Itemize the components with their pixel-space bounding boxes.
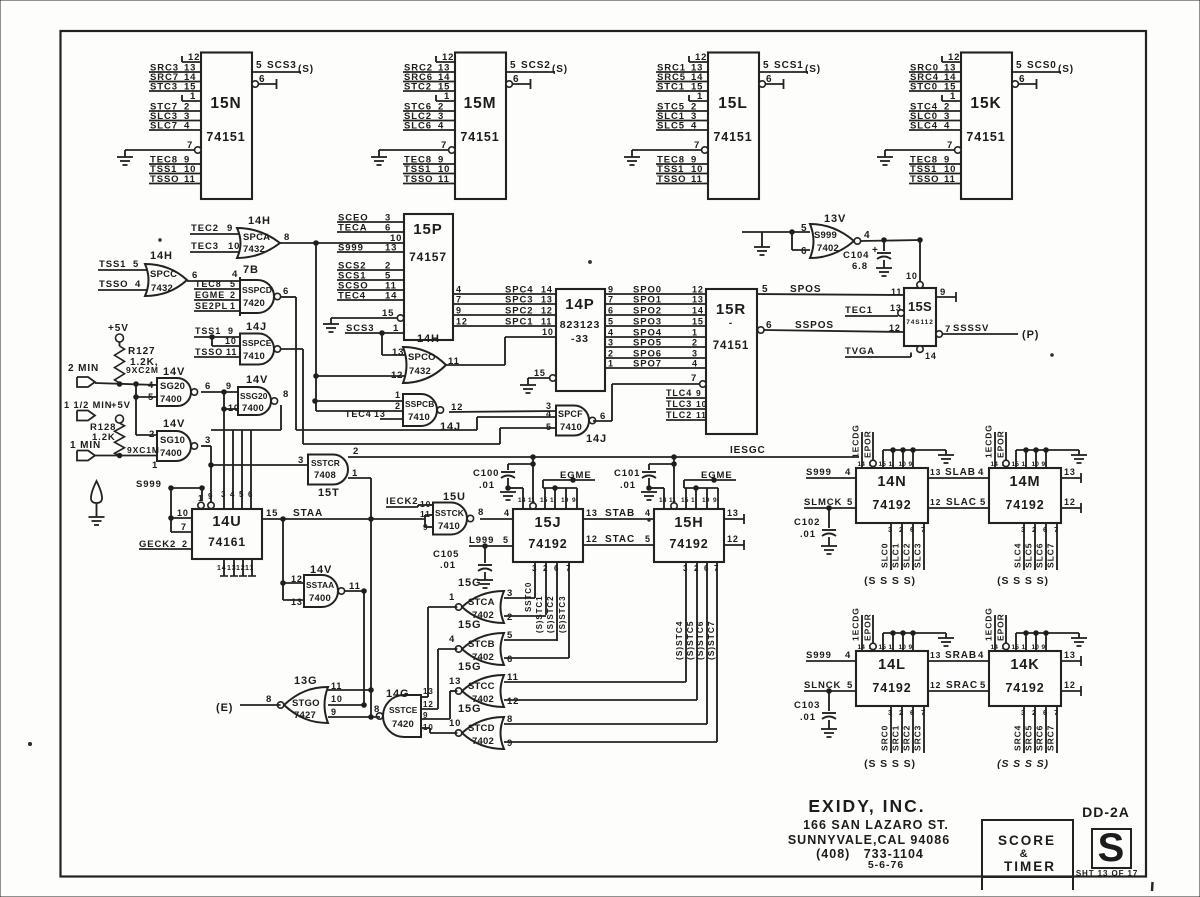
svg-text:74192: 74192 <box>528 537 567 551</box>
svg-text:14: 14 <box>659 497 667 504</box>
svg-text:4: 4 <box>135 279 141 290</box>
svg-text:14: 14 <box>518 497 526 504</box>
svg-text:SRC3: SRC3 <box>913 725 923 751</box>
svg-text:TSSO: TSSO <box>910 174 939 185</box>
svg-text:9: 9 <box>696 388 702 398</box>
svg-text:11: 11 <box>891 287 902 297</box>
svg-text:SRC0: SRC0 <box>880 725 890 751</box>
svg-text:12: 12 <box>692 285 704 295</box>
svg-text:13V: 13V <box>824 213 846 225</box>
svg-text:5: 5 <box>133 259 139 270</box>
svg-text:TSSO: TSSO <box>99 279 128 290</box>
svg-text:7400: 7400 <box>160 394 182 405</box>
svg-text:12: 12 <box>507 696 519 707</box>
svg-text:2: 2 <box>899 525 904 534</box>
svg-text:4: 4 <box>845 467 851 478</box>
svg-text:SSTC0: SSTC0 <box>524 582 533 612</box>
svg-text:12: 12 <box>586 534 598 544</box>
svg-text:1: 1 <box>190 91 196 102</box>
svg-text:STC2: STC2 <box>404 82 432 93</box>
svg-text:6: 6 <box>910 708 915 717</box>
svg-text:(S S S S): (S S S S) <box>864 758 916 770</box>
svg-text:74157: 74157 <box>409 250 447 264</box>
svg-text:C103: C103 <box>794 700 820 711</box>
svg-text:12: 12 <box>889 323 901 333</box>
svg-text:2 MIN: 2 MIN <box>68 363 99 374</box>
svg-text:15M: 15M <box>464 95 497 112</box>
svg-text:5: 5 <box>645 534 651 544</box>
svg-text:6.8: 6.8 <box>852 261 868 272</box>
svg-text:6: 6 <box>608 306 614 316</box>
svg-text:8: 8 <box>478 507 484 518</box>
svg-text:74192: 74192 <box>872 681 911 695</box>
svg-text:R127: R127 <box>128 346 156 357</box>
svg-text:4: 4 <box>691 121 697 132</box>
svg-text:6: 6 <box>554 564 559 573</box>
svg-text:12: 12 <box>442 52 454 63</box>
svg-text:5: 5 <box>763 60 769 71</box>
svg-text:9: 9 <box>228 326 234 336</box>
svg-text:(S): (S) <box>1058 64 1074 75</box>
svg-text:3: 3 <box>888 525 893 534</box>
svg-text:+5V: +5V <box>108 323 129 334</box>
svg-text:13: 13 <box>930 650 941 660</box>
svg-text:2: 2 <box>694 564 699 573</box>
svg-text:9: 9 <box>423 711 428 720</box>
svg-text:SRC5: SRC5 <box>1024 725 1034 751</box>
svg-text:SLAB: SLAB <box>945 467 976 478</box>
svg-text:L999: L999 <box>469 535 494 546</box>
svg-text:15G: 15G <box>458 703 482 715</box>
svg-text:6: 6 <box>1043 525 1048 534</box>
svg-text:SG20: SG20 <box>160 381 185 392</box>
svg-text:EGME: EGME <box>560 470 592 481</box>
svg-text:15T: 15T <box>318 487 340 499</box>
svg-text:6: 6 <box>248 490 253 499</box>
svg-text:STAA: STAA <box>293 508 323 519</box>
svg-text:TLC3: TLC3 <box>666 399 692 409</box>
svg-text:15S: 15S <box>908 299 932 314</box>
svg-text:TEC4: TEC4 <box>345 409 372 419</box>
svg-text:SUNNYVALE,CAL 94086: SUNNYVALE,CAL 94086 <box>788 833 950 847</box>
svg-text:10: 10 <box>696 399 707 409</box>
svg-text:11: 11 <box>669 497 676 504</box>
svg-text:2: 2 <box>353 446 359 457</box>
svg-text:10: 10 <box>423 723 434 732</box>
svg-text:5: 5 <box>546 422 552 432</box>
svg-text:STCA: STCA <box>468 597 495 608</box>
svg-text:13: 13 <box>890 303 902 313</box>
svg-text:7400: 7400 <box>309 593 331 604</box>
svg-text:7420: 7420 <box>243 298 265 309</box>
svg-text:14M: 14M <box>1010 474 1041 490</box>
svg-text:5: 5 <box>503 535 509 545</box>
svg-text:12: 12 <box>188 52 200 63</box>
svg-text:7408: 7408 <box>314 470 336 481</box>
svg-text:C101: C101 <box>614 468 640 479</box>
svg-text:6: 6 <box>283 286 289 297</box>
svg-text:13G: 13G <box>294 675 318 687</box>
svg-text:SSPOS: SSPOS <box>795 320 834 331</box>
svg-text:11: 11 <box>438 174 450 185</box>
svg-text:SLC3: SLC3 <box>913 543 923 568</box>
svg-text:4: 4 <box>978 467 984 478</box>
svg-text:STCD: STCD <box>468 723 495 734</box>
svg-text:(S S S S): (S S S S) <box>864 575 916 587</box>
svg-text:C105: C105 <box>433 549 459 560</box>
svg-text:TSSO: TSSO <box>195 347 223 357</box>
svg-text:2: 2 <box>899 708 904 717</box>
svg-text:7: 7 <box>921 708 926 717</box>
svg-text:5: 5 <box>762 284 768 295</box>
svg-text:14: 14 <box>217 565 227 572</box>
svg-text:SPC2: SPC2 <box>505 306 533 317</box>
svg-text:12: 12 <box>1064 497 1076 507</box>
svg-text:SLAC: SLAC <box>946 497 977 508</box>
svg-text:1: 1 <box>889 461 893 468</box>
svg-text:-33: -33 <box>571 333 589 345</box>
svg-text:EPOR: EPOR <box>863 430 873 458</box>
svg-text:1: 1 <box>550 497 554 504</box>
svg-text:(S)STC4: (S)STC4 <box>674 621 684 660</box>
svg-text:1: 1 <box>230 301 236 311</box>
svg-text:15: 15 <box>692 317 704 327</box>
svg-text:1 MIN: 1 MIN <box>70 440 101 451</box>
svg-text:13: 13 <box>374 409 386 419</box>
svg-text:7410: 7410 <box>438 521 460 532</box>
svg-text:15P: 15P <box>413 221 442 238</box>
svg-text:5: 5 <box>980 680 986 691</box>
svg-text:4: 4 <box>449 634 455 645</box>
svg-text:STGO: STGO <box>292 698 320 709</box>
svg-text:1: 1 <box>692 328 698 338</box>
svg-text:TSS1: TSS1 <box>99 259 126 270</box>
svg-text:SE2PL: SE2PL <box>195 301 228 311</box>
svg-text:(S)STC3: (S)STC3 <box>558 596 567 633</box>
svg-text:14J: 14J <box>586 433 607 445</box>
svg-text:8: 8 <box>283 389 289 400</box>
svg-text:7400: 7400 <box>242 403 264 414</box>
svg-text:4: 4 <box>608 328 614 338</box>
svg-text:SRC2: SRC2 <box>902 725 912 751</box>
svg-text:4: 4 <box>504 508 510 518</box>
svg-text:(S)STC2: (S)STC2 <box>546 596 555 633</box>
svg-text:9XC2M: 9XC2M <box>126 365 159 375</box>
svg-text:15: 15 <box>534 368 546 378</box>
svg-text:13: 13 <box>385 243 397 254</box>
svg-text:SSPCB: SSPCB <box>405 399 434 409</box>
svg-text:4: 4 <box>184 121 190 132</box>
svg-text:1ECDG: 1ECDG <box>984 424 994 458</box>
svg-text:12: 12 <box>456 317 468 327</box>
svg-text:2: 2 <box>1032 708 1037 717</box>
svg-text:14: 14 <box>541 285 553 295</box>
svg-text:823123: 823123 <box>560 319 600 331</box>
svg-text:SCS3: SCS3 <box>267 60 297 71</box>
svg-text:10: 10 <box>702 497 710 504</box>
svg-text:SSG20: SSG20 <box>240 391 268 401</box>
svg-text:SHT 13 OF 17: SHT 13 OF 17 <box>1076 869 1138 878</box>
svg-text:14V: 14V <box>163 366 185 378</box>
svg-text:TLC2: TLC2 <box>666 410 692 420</box>
svg-text:6: 6 <box>1043 708 1048 717</box>
svg-text:4: 4 <box>456 285 462 295</box>
svg-text:6: 6 <box>507 654 513 665</box>
svg-text:74192: 74192 <box>1005 498 1044 512</box>
svg-text:74192: 74192 <box>872 498 911 512</box>
svg-text:S999: S999 <box>136 479 162 490</box>
svg-text:74151: 74151 <box>713 130 752 144</box>
svg-text:10: 10 <box>906 271 918 281</box>
svg-text:SLC1: SLC1 <box>891 543 901 568</box>
svg-text:STAC: STAC <box>605 534 635 545</box>
svg-text:11: 11 <box>528 497 535 504</box>
svg-text:7: 7 <box>691 373 697 384</box>
svg-text:(S S S S): (S S S S) <box>997 575 1049 587</box>
svg-text:15: 15 <box>266 508 278 519</box>
svg-text:TEC1: TEC1 <box>845 305 873 316</box>
svg-text:1: 1 <box>152 460 158 471</box>
svg-text:(S): (S) <box>552 64 568 75</box>
svg-text:74S112: 74S112 <box>906 319 933 326</box>
svg-text:TECA: TECA <box>338 223 367 234</box>
svg-text:IESGC: IESGC <box>730 445 766 456</box>
svg-text:STCB: STCB <box>468 639 495 650</box>
svg-text:SLC4: SLC4 <box>910 121 938 132</box>
svg-text:13: 13 <box>930 467 941 477</box>
svg-text:14J: 14J <box>246 321 267 333</box>
svg-text:SLC5: SLC5 <box>1024 543 1034 568</box>
svg-text:8: 8 <box>374 704 380 715</box>
svg-text:(S)STC5: (S)STC5 <box>685 621 695 660</box>
svg-text:STAB: STAB <box>605 508 635 519</box>
svg-text:1: 1 <box>691 497 695 504</box>
svg-text:7402: 7402 <box>817 243 839 254</box>
svg-text:13: 13 <box>449 676 461 687</box>
svg-text:14V: 14V <box>246 374 268 386</box>
svg-text:SG10: SG10 <box>160 435 185 446</box>
svg-text:SPOS: SPOS <box>790 284 821 295</box>
svg-text:2: 2 <box>182 539 188 549</box>
svg-text:9: 9 <box>572 497 576 504</box>
svg-text:.01: .01 <box>800 712 816 723</box>
svg-text:14P: 14P <box>565 296 594 313</box>
svg-text:SLNCK: SLNCK <box>804 680 841 691</box>
svg-text:SLMCK: SLMCK <box>804 497 842 508</box>
svg-text:7420: 7420 <box>392 719 414 730</box>
svg-text:SLC7: SLC7 <box>150 121 178 132</box>
svg-text:7432: 7432 <box>243 244 265 255</box>
svg-text:10: 10 <box>390 233 402 244</box>
svg-text:TVGA: TVGA <box>845 346 875 357</box>
svg-text:15G: 15G <box>458 619 482 631</box>
svg-text:11: 11 <box>245 565 254 572</box>
svg-text:-: - <box>729 318 733 329</box>
svg-text:4: 4 <box>944 121 950 132</box>
svg-text:6: 6 <box>205 381 211 392</box>
svg-text:6: 6 <box>385 223 391 234</box>
svg-text:1: 1 <box>198 494 203 503</box>
svg-text:STC0: STC0 <box>910 82 938 93</box>
svg-text:.01: .01 <box>620 480 636 491</box>
svg-text:TEC3: TEC3 <box>191 241 219 252</box>
svg-text:(S)STC6: (S)STC6 <box>695 621 705 660</box>
svg-text:SCS2: SCS2 <box>521 60 551 71</box>
svg-text:14K: 14K <box>1010 657 1039 673</box>
svg-text:12: 12 <box>727 534 739 544</box>
svg-text:SSTCK: SSTCK <box>435 508 464 518</box>
svg-text:6: 6 <box>801 246 807 257</box>
svg-text:9: 9 <box>1042 461 1046 468</box>
svg-text:3: 3 <box>692 349 698 359</box>
svg-text:7B: 7B <box>243 264 259 276</box>
svg-text:SPC3: SPC3 <box>505 295 533 306</box>
svg-text:14U: 14U <box>212 514 241 530</box>
svg-text:EXIDY, INC.: EXIDY, INC. <box>808 796 925 816</box>
svg-text:7427: 7427 <box>294 710 316 721</box>
svg-text:5: 5 <box>230 279 236 289</box>
svg-text:5: 5 <box>1016 60 1022 71</box>
svg-text:1: 1 <box>1022 644 1026 651</box>
svg-text:DD-2A: DD-2A <box>1082 804 1130 820</box>
svg-text:EGME: EGME <box>195 290 225 300</box>
svg-text:2: 2 <box>543 564 548 573</box>
svg-text:5: 5 <box>608 317 614 327</box>
svg-text:15K: 15K <box>970 95 1001 112</box>
svg-text:14L: 14L <box>878 657 906 673</box>
svg-text:SCS3: SCS3 <box>346 323 374 334</box>
svg-text:10: 10 <box>331 694 343 704</box>
svg-text:13: 13 <box>1064 467 1076 477</box>
svg-text:4: 4 <box>230 490 235 499</box>
svg-text:1: 1 <box>1022 461 1026 468</box>
svg-text:7410: 7410 <box>243 351 265 362</box>
svg-text:SRAC: SRAC <box>946 680 978 691</box>
svg-text:SLC6: SLC6 <box>404 121 432 132</box>
svg-text:STC1: STC1 <box>657 82 685 93</box>
svg-text:14H: 14H <box>150 250 173 262</box>
svg-text:7410: 7410 <box>408 412 430 423</box>
svg-text:5: 5 <box>847 680 853 691</box>
svg-text:15: 15 <box>540 497 548 504</box>
svg-text:SRC4: SRC4 <box>1013 725 1023 751</box>
svg-text:(S)STC1: (S)STC1 <box>535 596 544 633</box>
svg-text:12: 12 <box>423 700 434 709</box>
svg-text:11: 11 <box>696 410 707 420</box>
svg-text:5: 5 <box>980 497 986 508</box>
svg-text:14H: 14H <box>417 333 440 345</box>
svg-text:15U: 15U <box>443 491 466 503</box>
svg-text:8: 8 <box>284 232 290 243</box>
svg-text:10: 10 <box>449 718 461 729</box>
svg-text:.01: .01 <box>479 480 495 491</box>
svg-text:2: 2 <box>230 290 236 300</box>
svg-text:3: 3 <box>888 708 893 717</box>
svg-text:74192: 74192 <box>669 537 708 551</box>
svg-text:SPCO: SPCO <box>408 352 436 363</box>
svg-text:10: 10 <box>177 508 189 518</box>
svg-text:9: 9 <box>713 497 717 504</box>
svg-text:SPC1: SPC1 <box>505 317 533 328</box>
svg-text:74151: 74151 <box>206 130 245 144</box>
svg-text:14: 14 <box>692 306 704 316</box>
svg-text:9: 9 <box>227 223 233 234</box>
svg-text:10: 10 <box>542 327 554 337</box>
svg-text:15L: 15L <box>718 95 747 112</box>
svg-text:11: 11 <box>944 174 956 185</box>
svg-text:7: 7 <box>456 295 462 305</box>
svg-text:SLC6: SLC6 <box>1035 543 1045 568</box>
svg-text:SPO3: SPO3 <box>633 317 662 328</box>
svg-text:10: 10 <box>228 403 240 413</box>
svg-text:14: 14 <box>385 291 397 302</box>
svg-text:SPCF: SPCF <box>558 409 583 419</box>
svg-text:TEC2: TEC2 <box>191 223 219 234</box>
svg-text:TIMER: TIMER <box>1004 859 1056 874</box>
svg-text:EGME: EGME <box>701 470 733 481</box>
svg-text:4: 4 <box>692 359 698 369</box>
svg-text:C104: C104 <box>843 250 869 261</box>
svg-text:EPOR: EPOR <box>996 613 1006 641</box>
svg-text:8: 8 <box>266 694 272 705</box>
svg-text:2: 2 <box>608 349 614 359</box>
svg-text:SPO2: SPO2 <box>633 306 662 317</box>
svg-text:11: 11 <box>541 317 552 327</box>
svg-text:6: 6 <box>704 564 709 573</box>
svg-text:SPO7: SPO7 <box>633 359 662 370</box>
svg-text:7: 7 <box>566 564 571 573</box>
svg-text:4: 4 <box>845 650 851 661</box>
svg-text:12: 12 <box>695 52 707 63</box>
svg-text:4: 4 <box>978 650 984 661</box>
svg-text:15G: 15G <box>458 661 482 673</box>
svg-text:1: 1 <box>444 91 450 102</box>
svg-text:SSTCR: SSTCR <box>311 458 340 468</box>
svg-text:13: 13 <box>692 295 704 305</box>
svg-text:SSTAA: SSTAA <box>306 580 334 590</box>
svg-text:SRAB: SRAB <box>945 650 977 661</box>
svg-text:1: 1 <box>449 592 455 603</box>
svg-text:10: 10 <box>228 241 240 252</box>
svg-text:74192: 74192 <box>1005 681 1044 695</box>
svg-text:3: 3 <box>683 564 688 573</box>
svg-text:14N: 14N <box>877 474 906 490</box>
svg-text:14V: 14V <box>163 418 185 430</box>
svg-text:SLC5: SLC5 <box>657 121 685 132</box>
svg-text:7: 7 <box>1054 708 1059 717</box>
svg-text:15H: 15H <box>674 515 703 531</box>
svg-text:15R: 15R <box>716 301 746 318</box>
svg-text:5: 5 <box>847 497 853 508</box>
svg-text:S999: S999 <box>814 230 837 241</box>
svg-text:11: 11 <box>184 174 196 185</box>
svg-text:12: 12 <box>930 497 941 507</box>
svg-text:1: 1 <box>608 359 614 369</box>
svg-text:SSSSV: SSSSV <box>953 323 989 334</box>
svg-text:SSTCE: SSTCE <box>389 705 418 715</box>
svg-text:7410: 7410 <box>560 422 582 433</box>
svg-text:13: 13 <box>1064 650 1076 660</box>
svg-text:7402: 7402 <box>472 736 494 747</box>
svg-text:STCC: STCC <box>468 681 495 692</box>
svg-text:7: 7 <box>1054 525 1059 534</box>
svg-text:9: 9 <box>909 461 913 468</box>
svg-text:7400: 7400 <box>160 448 182 459</box>
svg-text:.01: .01 <box>800 529 816 540</box>
svg-text:4: 4 <box>546 409 552 419</box>
svg-text:S999: S999 <box>338 243 364 254</box>
svg-text:7: 7 <box>608 295 614 305</box>
